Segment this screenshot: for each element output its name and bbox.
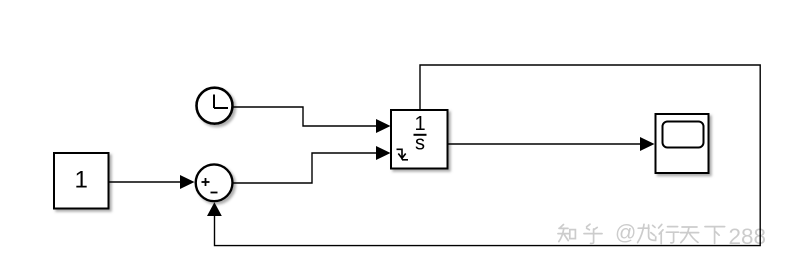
char 下 (705, 226, 725, 228)
arrowhead into sum left (180, 175, 195, 189)
clock hands (214, 95, 228, 109)
sum minus sign (211, 192, 218, 194)
arrowhead into integrator port2 (376, 146, 391, 160)
char 天 (682, 226, 697, 228)
char 行 (659, 224, 662, 228)
feedback wire from integrator state port to sum minus input (215, 65, 761, 246)
sum plus sign (202, 178, 210, 186)
constant block Constant value 1 (54, 153, 109, 209)
scope screen (663, 122, 704, 148)
integrator falling-edge reset icon (397, 149, 409, 160)
sum block circle (196, 164, 233, 201)
svg-text:s: s (415, 133, 425, 155)
wire constant to sum (109, 181, 182, 183)
arrowhead into integrator port1 (376, 119, 391, 133)
char 龙 (638, 227, 649, 229)
wire sum to integrator reset port (234, 153, 378, 183)
char 知 (560, 225, 564, 228)
watermark 知乎 @龙行天下288 (vector strokes, light gray) (558, 224, 725, 243)
clock block (197, 88, 233, 124)
integrator block (391, 110, 448, 169)
scope block (656, 114, 709, 173)
svg-text:1: 1 (75, 167, 88, 194)
char 乎 (587, 224, 590, 227)
arrowhead into scope (640, 137, 655, 151)
wire integrator output to scope (449, 143, 642, 145)
arrowhead up into sum bottom (207, 202, 222, 216)
svg-text:@: @ (615, 222, 636, 245)
wire clock to integrator input 1 (234, 107, 378, 126)
